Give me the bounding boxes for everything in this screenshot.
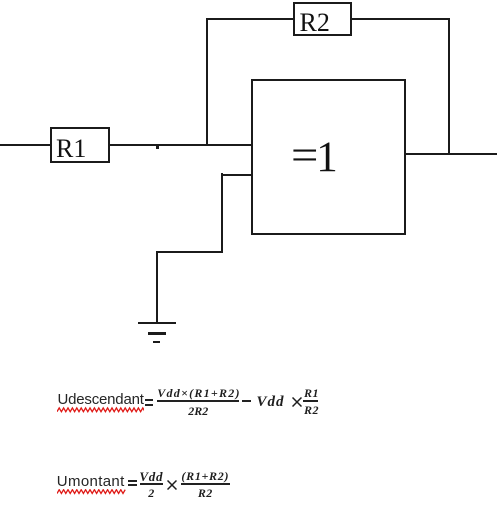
gate U1 body (251, 79, 406, 235)
resistor R1 (50, 127, 110, 163)
equation 1 times sign (292, 397, 302, 407)
equation 1 equals sign (145, 399, 153, 401)
wire feedback top-right horizontal (352, 18, 450, 20)
equation 1 fraction numerator Vdd×(R1+R2) (157, 387, 239, 399)
equation 1 small fraction denominator R2 (304, 404, 319, 416)
wire ground jog horizontal (156, 251, 224, 253)
wire second input vertical (221, 173, 223, 253)
equation 1 small fraction bar (303, 400, 317, 402)
junction tick on input wire (156, 146, 159, 149)
equation 2 equals sign (128, 480, 137, 482)
wire feedback right vertical (448, 18, 450, 155)
ground bar 3 (153, 341, 160, 343)
equation 1 small fraction numerator R1 (304, 387, 319, 399)
equation 2 fraction denominator R2 (181, 487, 230, 499)
equation 1 Vdd term (257, 395, 285, 410)
equation 2 fraction bar (181, 483, 230, 485)
wire input net horizontal (0, 144, 252, 146)
equation 1 word Udescendant (58, 392, 144, 407)
equation 1 fraction bar (157, 400, 239, 402)
label =1 (291, 136, 340, 179)
equation 1 minus sign (242, 400, 252, 402)
wire output horizontal (404, 153, 497, 155)
equation 2 fraction numerator Vdd (139, 470, 163, 483)
equation 1 squiggle (57, 406, 144, 413)
equation 2 word Umontant (57, 474, 125, 489)
wire feedback top-left horizontal (206, 18, 293, 20)
equation 2 squiggle (57, 489, 126, 496)
label R1 (56, 136, 86, 162)
wire ground vertical (156, 251, 158, 323)
resistor R2 (293, 2, 352, 36)
ground bar 2 (148, 332, 166, 335)
equation 1 fraction denominator 2R2 (157, 405, 239, 417)
equation 2 fraction denominator 2 (139, 487, 163, 499)
ground bar 1 (138, 322, 176, 325)
equation 2 fraction numerator (R1+R2) (181, 470, 230, 482)
wire second input horizontal (221, 174, 251, 176)
equation 2 times sign (167, 480, 177, 490)
wire feedback left vertical (206, 18, 208, 146)
label R2 (300, 10, 330, 36)
equation 2 fraction bar (140, 483, 163, 485)
